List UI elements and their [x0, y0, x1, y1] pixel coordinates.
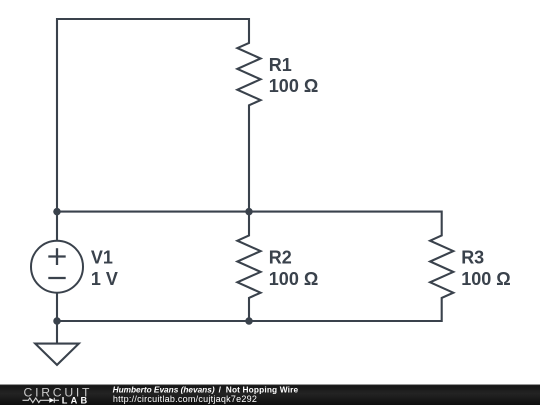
- svg-text:100 Ω: 100 Ω: [269, 269, 318, 289]
- svg-text:1 V: 1 V: [91, 269, 118, 289]
- svg-text:R1: R1: [269, 55, 292, 75]
- svg-text:Humberto Evans (hevans): Humberto Evans (hevans): [113, 384, 215, 394]
- svg-text:100 Ω: 100 Ω: [461, 269, 510, 289]
- svg-text:100 Ω: 100 Ω: [269, 76, 318, 96]
- svg-text:V1: V1: [91, 248, 113, 268]
- svg-text:http://circuitlab.com/cujtjaqk: http://circuitlab.com/cujtjaqk7e292: [113, 394, 257, 404]
- svg-text:R2: R2: [269, 248, 292, 268]
- svg-text:LAB: LAB: [62, 396, 88, 405]
- svg-text:R3: R3: [461, 248, 484, 268]
- svg-text:Not Hopping Wire: Not Hopping Wire: [226, 384, 299, 394]
